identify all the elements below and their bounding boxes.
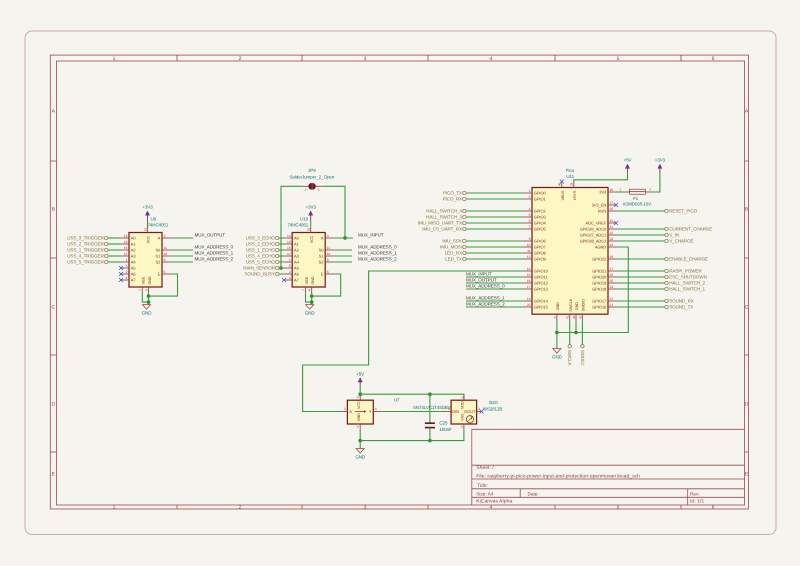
svg-text:V_CHARGE: V_CHARGE	[669, 239, 693, 244]
svg-text:MUX_ADDRESS_1: MUX_ADDRESS_1	[466, 296, 505, 301]
svg-text:30: 30	[610, 207, 614, 211]
svg-text:1: 1	[305, 188, 307, 192]
svg-text:+3V3: +3V3	[142, 205, 153, 210]
svg-text:VDD: VDD	[461, 401, 465, 409]
svg-text:GPIO28_ADC2: GPIO28_ADC2	[580, 239, 607, 244]
svg-text:AGND: AGND	[595, 245, 606, 250]
svg-text:GND: GND	[575, 302, 579, 310]
hierarchical label PICO_TX	[443, 191, 466, 196]
local label MUX_INPUT	[358, 233, 384, 238]
reference and value of U9	[148, 217, 169, 228]
svg-text:E: E	[321, 272, 324, 277]
svg-text:SN74LVC1T45DBV: SN74LVC1T45DBV	[413, 405, 451, 410]
svg-text:9: 9	[529, 237, 531, 241]
no-connect cross on U9	[119, 266, 123, 270]
svg-text:GPIO17: GPIO17	[592, 299, 607, 304]
svg-text:3: 3	[164, 234, 166, 238]
wire fuse F1 to +3V3	[652, 171, 660, 192]
wire LED_RX to U11	[466, 252, 523, 254]
wire USS_4_ECHO to U10	[279, 255, 283, 257]
svg-text:GND: GND	[305, 310, 316, 315]
capacitor C25	[425, 394, 435, 440]
junction at U7 VCC rail	[358, 392, 362, 396]
svg-text:14: 14	[287, 240, 291, 244]
wire +5V to U7 VCC	[359, 385, 361, 394]
no-connect cross on U9	[119, 278, 123, 282]
svg-text:GPIO19: GPIO19	[592, 281, 607, 286]
svg-text:35: 35	[610, 219, 614, 223]
+5V power symbol at U11	[624, 158, 632, 172]
svg-text:RUN: RUN	[598, 209, 607, 214]
wire LED_TX to U11	[466, 258, 523, 260]
svg-text:10: 10	[327, 252, 331, 256]
hierarchical label HALL_SWITCH_2	[665, 281, 706, 286]
svg-text:USS_3_ECHO: USS_3_ECHO	[246, 236, 276, 241]
wire USS_4_TRIGGER to U9	[108, 255, 120, 257]
svg-text:16: 16	[143, 228, 147, 232]
wire MUX_INPUT to U11	[466, 276, 523, 278]
svg-text:4: 4	[289, 276, 291, 280]
+3V3 power symbol at U9	[142, 205, 153, 227]
wire U7 GND to ground rail	[359, 430, 361, 441]
svg-text:LED_RX: LED_RX	[445, 251, 462, 256]
svg-text:GND: GND	[556, 302, 560, 310]
svg-text:GPIO6: GPIO6	[534, 239, 547, 244]
svg-text:SWCLK: SWCLK	[569, 298, 573, 311]
svg-text:ESC_SHUTDOWN: ESC_SHUTDOWN	[669, 275, 707, 280]
svg-text:GPIO10: GPIO10	[534, 269, 549, 274]
wire U11 to ENABLE_CHARGE	[616, 258, 665, 260]
local label MUX_OUTPUT at U11	[466, 278, 497, 283]
local label MUX_ADDRESS_2 at U10	[358, 257, 397, 262]
svg-text:GPIO16: GPIO16	[592, 305, 607, 310]
svg-text:E: E	[52, 472, 56, 478]
wire U11 to SOUND_RX	[616, 300, 665, 302]
svg-text:6: 6	[327, 270, 329, 274]
wire MUX_OUTPUT to U11	[466, 282, 523, 284]
svg-text:nSMD035-16V: nSMD035-16V	[623, 201, 652, 206]
svg-text:MUX_ADDRESS_1: MUX_ADDRESS_1	[195, 251, 234, 256]
hierarchical label USS_5_TRIGGER	[67, 260, 108, 265]
wire GPIO10 of U11 to level shifter U7	[303, 271, 523, 412]
wire RAIN_SENSOR to U10	[279, 267, 283, 269]
hierarchical label USS_3_ECHO	[246, 236, 279, 241]
svg-text:2: 2	[239, 56, 242, 62]
wire MUX_ADDRESS_0 to U11	[466, 288, 523, 290]
hierarchical label SOUND_RX	[665, 299, 694, 304]
svg-text:5: 5	[529, 213, 531, 217]
svg-text:USS_3_TRIGGER: USS_3_TRIGGER	[67, 236, 104, 241]
svg-text:11: 11	[327, 246, 331, 250]
svg-text:GPIO22: GPIO22	[592, 257, 607, 262]
svg-text:SOUND_BUSY: SOUND_BUSY	[244, 272, 275, 277]
svg-text:USS_5_ECHO: USS_5_ECHO	[246, 260, 276, 265]
svg-text:74HC4051: 74HC4051	[148, 222, 169, 227]
svg-text:2: 2	[289, 270, 291, 274]
wire U10 to MUX_ADDRESS_2	[334, 261, 352, 263]
svg-text:6: 6	[712, 505, 715, 511]
svg-text:VSYS: VSYS	[573, 190, 577, 200]
multiplexer U10 74HC4051	[283, 227, 334, 294]
no-connect cross on B2G DOUT	[480, 410, 484, 414]
svg-text:37: 37	[610, 201, 614, 205]
svg-text:19: 19	[527, 297, 531, 301]
svg-text:CURRENT_CHARGE: CURRENT_CHARGE	[669, 227, 712, 232]
reference and value of U10	[287, 217, 308, 228]
svg-text:4: 4	[126, 276, 128, 280]
svg-text:1: 1	[113, 56, 116, 62]
wire USS_3_TRIGGER to U9	[108, 237, 120, 239]
svg-text:MUX_ADDRESS_2: MUX_ADDRESS_2	[466, 302, 505, 307]
wire VSYS to +5V	[574, 171, 628, 182]
svg-text:GPIO2: GPIO2	[534, 209, 547, 214]
svg-text:Pico: Pico	[566, 168, 575, 173]
svg-text:3: 3	[460, 426, 464, 428]
local label MUX_ADDRESS_2 at U11	[466, 302, 505, 307]
svg-text:GPIO14: GPIO14	[534, 299, 549, 304]
hierarchical label USS_1_TRIGGER	[67, 248, 108, 253]
svg-text:21: 21	[610, 303, 614, 307]
svg-text:HALL_SWITCH_4: HALL_SWITCH_4	[426, 209, 462, 214]
wire USS_2_ECHO to U10	[279, 243, 283, 245]
hierarchical label LED_RX	[445, 251, 466, 256]
svg-text:7: 7	[138, 289, 142, 291]
svg-text:HALL_SWITCH_1: HALL_SWITCH_1	[669, 287, 705, 292]
svg-text:USS_1_TRIGGER: USS_1_TRIGGER	[67, 248, 104, 253]
svg-text:WS2812B: WS2812B	[483, 406, 503, 411]
junction at U10 VEE join	[310, 300, 314, 304]
svg-text:IMU_SCK: IMU_SCK	[442, 239, 463, 244]
wire U10 to MUX_ADDRESS_1	[334, 255, 352, 257]
no-connect cross on VBUS pin	[560, 180, 564, 184]
svg-text:GPIO11: GPIO11	[534, 275, 549, 280]
junction at U7 ground rail	[358, 439, 362, 443]
svg-text:4: 4	[375, 407, 377, 411]
reference and value of B2G	[483, 400, 503, 411]
svg-text:File: raspberry-pi-pico-power-: File: raspberry-pi-pico-power-input-and-…	[476, 474, 640, 480]
svg-text:SOUND_RX: SOUND_RX	[669, 299, 694, 304]
svg-text:15: 15	[287, 246, 291, 250]
svg-text:20: 20	[527, 303, 531, 307]
ground symbol below U7	[355, 449, 366, 460]
multiplexer U9 74HC4051	[120, 227, 171, 294]
svg-text:2: 2	[529, 195, 531, 199]
svg-text:GPIO26_ADC0: GPIO26_ADC0	[580, 227, 607, 232]
svg-text:DOUT: DOUT	[464, 409, 476, 414]
svg-text:Rev:: Rev:	[690, 491, 700, 496]
svg-text:DIN: DIN	[452, 409, 459, 414]
svg-text:8: 8	[308, 289, 312, 291]
svg-text:VEE: VEE	[305, 276, 309, 284]
svg-text:9: 9	[164, 258, 166, 262]
reference and value of JP9	[290, 168, 335, 179]
wire USS_1_TRIGGER to U9	[108, 249, 120, 251]
svg-text:D: D	[51, 402, 55, 408]
no-connect cross on 3V3_EN	[614, 203, 618, 207]
svg-text:17: 17	[527, 285, 531, 289]
svg-text:3: 3	[356, 426, 360, 428]
svg-text:Date:: Date:	[528, 491, 539, 496]
wire MUX_ADDRESS_1 to U11	[466, 300, 523, 302]
svg-text:GPIO1: GPIO1	[534, 197, 547, 202]
svg-text:GPIO7: GPIO7	[534, 245, 547, 250]
svg-text:VBUS: VBUS	[561, 190, 565, 200]
svg-text:+3V3: +3V3	[655, 158, 666, 163]
svg-text:3V3: 3V3	[599, 190, 607, 195]
svg-text:12: 12	[124, 252, 128, 256]
svg-text:29: 29	[610, 255, 614, 259]
svg-text:MUX_ADDRESS_0: MUX_ADDRESS_0	[195, 245, 234, 250]
svg-text:16: 16	[527, 279, 531, 283]
svg-text:5: 5	[126, 264, 128, 268]
svg-text:14: 14	[527, 267, 531, 271]
svg-text:C25: C25	[439, 420, 448, 425]
svg-text:U10: U10	[300, 217, 309, 222]
svg-text:Y: Y	[369, 409, 372, 414]
+5V rail wire to C25 and B2G	[360, 394, 464, 400]
hierarchical label SOUND_BUSY	[244, 272, 279, 277]
ground symbol below U10	[305, 305, 316, 316]
level shifter U7 SN74LVC1T45DBV	[338, 394, 382, 430]
junction JP9 on MUX_INPUT wire	[343, 236, 347, 240]
wire USS_5_ECHO to U10	[279, 261, 283, 263]
wire U11 to SOUND_TX	[616, 306, 665, 308]
wire enable pin E of U10 to ground	[312, 274, 341, 296]
hierarchical label HALL_SWITCH_1	[665, 287, 706, 292]
svg-text:U7: U7	[394, 398, 400, 403]
svg-text:V_IN: V_IN	[669, 233, 679, 238]
hierarchical label USS_3_TRIGGER	[67, 236, 108, 241]
svg-text:74HC4051: 74HC4051	[287, 222, 308, 227]
svg-text:42: 42	[572, 315, 576, 319]
junction at U10 GND pin	[310, 294, 314, 298]
svg-text:GPIO15: GPIO15	[534, 305, 549, 310]
local label MUX_ADDRESS_0 at U10	[358, 245, 397, 250]
svg-text:11: 11	[164, 246, 168, 250]
wire GND pin of U10 down	[311, 293, 313, 305]
svg-text:IMU_CS_UART_RX: IMU_CS_UART_RX	[422, 227, 462, 232]
svg-text:6: 6	[712, 56, 715, 62]
hierarchical label USS_2_TRIGGER	[67, 242, 108, 247]
hierarchical label IMU_CS_UART_RX	[422, 227, 466, 232]
svg-text:GND: GND	[357, 413, 361, 421]
wire AGND of U11 to ground rail	[557, 247, 628, 333]
svg-text:3V3_EN: 3V3_EN	[592, 203, 607, 208]
svg-text:12: 12	[527, 255, 531, 259]
wire MUX_ADDRESS_2 to U11	[466, 306, 523, 308]
svg-text:39: 39	[570, 182, 574, 186]
wire USS_3_ECHO to U10	[279, 237, 283, 239]
hierarchical label ESC_SHUTDOWN	[665, 275, 707, 280]
svg-text:B: B	[52, 207, 56, 213]
hierarchical label USS_5_ECHO	[246, 260, 279, 265]
svg-text:6: 6	[529, 219, 531, 223]
svg-text:GND: GND	[355, 454, 366, 459]
svg-text:15: 15	[527, 273, 531, 277]
svg-text:+3V3: +3V3	[306, 205, 317, 210]
svg-text:4: 4	[529, 207, 531, 211]
microcontroller module U11 Raspberry Pi Pico	[523, 182, 616, 321]
wire U11 to HALL_SWITCH_2	[616, 282, 665, 284]
svg-text:USS_1_ECHO: USS_1_ECHO	[246, 248, 276, 253]
svg-text:PICO_TX: PICO_TX	[443, 191, 462, 196]
svg-text:+5V: +5V	[624, 158, 632, 163]
local label MUX_ADDRESS_2 at U9	[195, 257, 234, 262]
svg-text:4: 4	[448, 407, 450, 411]
svg-text:GPIO27_ADC1: GPIO27_ADC1	[580, 233, 607, 238]
svg-text:RESET_PICO: RESET_PICO	[669, 209, 697, 214]
hierarchical label IMU_MISO_UART_TX	[418, 221, 466, 226]
svg-text:ADC_VREF: ADC_VREF	[585, 221, 606, 226]
svg-text:+5V: +5V	[356, 371, 364, 376]
svg-text:SWCLK: SWCLK	[567, 350, 572, 367]
svg-text:GPIO21: GPIO21	[592, 269, 607, 274]
hierarchical label V_CHARGE	[665, 239, 694, 244]
wire U11 to HALL_SWITCH_1	[616, 288, 665, 290]
svg-text:LED_TX: LED_TX	[445, 257, 462, 262]
svg-text:2: 2	[478, 407, 480, 411]
svg-text:3: 3	[327, 234, 329, 238]
svg-text:GPIO0: GPIO0	[534, 191, 547, 196]
svg-text:27: 27	[610, 267, 614, 271]
hierarchical label USS_4_ECHO	[246, 254, 279, 259]
hierarchical label V_IN	[665, 233, 679, 238]
svg-text:7: 7	[529, 225, 531, 229]
wire IMU_MISO_UART_TX to U11	[466, 222, 523, 224]
wire IMU_CS_UART_RX to U11	[466, 228, 523, 230]
wire USS_5_TRIGGER to U9	[108, 261, 120, 263]
svg-text:VSS: VSS	[461, 413, 465, 421]
svg-text:32: 32	[610, 231, 614, 235]
wire U11 to ESC_SHUTDOWN	[616, 276, 665, 278]
hierarchical label RASPI_POWER	[665, 269, 703, 274]
svg-text:1: 1	[126, 258, 128, 262]
wire U10 output A to MUX_INPUT	[334, 237, 353, 239]
ground rail wire under U7 and B2G	[360, 430, 464, 441]
local label MUX_INPUT at U11	[466, 272, 492, 277]
wire SWCLK pin down	[569, 320, 571, 344]
junction at U11 ground rail	[555, 331, 559, 335]
RGB LED B2G WS2812B	[443, 394, 482, 430]
wire GND pin of U9 down	[148, 293, 150, 305]
wire 3V3 pin to fuse F1	[616, 191, 624, 193]
ground symbol below U11	[552, 349, 563, 360]
svg-text:U9: U9	[151, 217, 157, 222]
svg-text:SolderJumper_2_Open: SolderJumper_2_Open	[290, 174, 335, 179]
svg-text:22: 22	[610, 297, 614, 301]
svg-text:Title:: Title:	[477, 483, 489, 489]
wire U11 to RASPI_POWER	[616, 270, 665, 272]
wire U11 to V_CHARGE	[616, 240, 665, 242]
wire U9 output A to MUX_OUTPUT	[171, 237, 193, 239]
junction ground rail at C25	[428, 439, 432, 443]
hierarchical label RAIN_SENSOR	[243, 266, 279, 271]
svg-text:C: C	[745, 305, 749, 311]
svg-text:6: 6	[164, 270, 166, 274]
junction at U9 GND pin	[147, 294, 151, 298]
svg-text:GPIO9: GPIO9	[534, 257, 547, 262]
local label MUX_ADDRESS_1 at U9	[195, 251, 234, 256]
svg-text:1: 1	[113, 505, 116, 511]
svg-text:GPIO5: GPIO5	[534, 227, 547, 232]
+3V3 power symbol at F1	[655, 158, 666, 172]
svg-text:Sheet: /: Sheet: /	[476, 465, 494, 471]
hierarchical label USS_4_TRIGGER	[67, 254, 108, 259]
svg-text:U11: U11	[566, 174, 574, 179]
svg-text:8: 8	[553, 316, 557, 318]
hierarchical label IMU_MOSI	[440, 245, 466, 250]
svg-text:GPIO20: GPIO20	[592, 275, 607, 280]
svg-text:1: 1	[529, 189, 531, 193]
svg-text:D: D	[745, 402, 749, 408]
svg-text:USS_2_ECHO: USS_2_ECHO	[246, 242, 276, 247]
svg-text:16: 16	[307, 228, 311, 232]
svg-text:15: 15	[124, 246, 128, 250]
svg-text:C: C	[51, 305, 55, 311]
svg-text:1: 1	[460, 396, 464, 398]
svg-text:KiCanvas Alpha: KiCanvas Alpha	[476, 499, 512, 505]
wire VEE of U10 to ground	[306, 293, 312, 302]
svg-text:MUX_INPUT: MUX_INPUT	[358, 233, 384, 238]
+3V3 power symbol at U10	[306, 205, 317, 227]
wire U11 GND pin down	[556, 320, 558, 348]
svg-text:100nF: 100nF	[439, 427, 452, 432]
svg-text:14: 14	[124, 240, 128, 244]
no-connect cross on ADC_VREF	[614, 221, 618, 225]
wire VEE of U9 to ground	[142, 293, 148, 302]
svg-text:MUX_ADDRESS_0: MUX_ADDRESS_0	[358, 245, 397, 250]
svg-text:USS_4_ECHO: USS_4_ECHO	[246, 254, 276, 259]
svg-text:12: 12	[287, 252, 291, 256]
svg-text:1: 1	[619, 187, 621, 191]
local label MUX_ADDRESS_0 at U11	[466, 284, 505, 289]
svg-text:GPIO12: GPIO12	[534, 281, 549, 286]
svg-text:7: 7	[301, 289, 305, 291]
wire IMU_MOSI to U11	[466, 246, 523, 248]
svg-text:5: 5	[356, 396, 360, 398]
svg-text:IMU_MOSI: IMU_MOSI	[440, 245, 462, 250]
svg-text:GPIO4: GPIO4	[534, 221, 547, 226]
wire U10 to MUX_ADDRESS_0	[334, 249, 352, 251]
svg-text:GPIO18: GPIO18	[592, 287, 607, 292]
svg-text:3: 3	[364, 56, 367, 62]
reference and value of F1	[623, 196, 652, 206]
svg-text:4: 4	[490, 56, 493, 62]
wire USS_1_ECHO to U10	[279, 249, 283, 251]
wire enable pin E of U9 to ground	[149, 274, 178, 296]
svg-text:USS_5_TRIGGER: USS_5_TRIGGER	[67, 260, 104, 265]
wire U11 to V_IN	[616, 234, 665, 236]
svg-text:10: 10	[527, 243, 531, 247]
junction debug GND on rail	[574, 331, 578, 335]
svg-text:5: 5	[617, 505, 620, 511]
hierarchical label HALL_SWITCH_3	[426, 215, 466, 220]
svg-text:GPIO8: GPIO8	[534, 251, 547, 256]
wire PICO_TX to U11	[466, 192, 523, 194]
svg-text:E: E	[158, 272, 161, 277]
svg-text:GND: GND	[148, 276, 152, 284]
wire U7 Y output to B2G DIN	[382, 411, 442, 413]
svg-text:GPIO3: GPIO3	[534, 215, 547, 220]
hierarchical label CURRENT_CHARGE	[665, 227, 712, 232]
svg-text:24: 24	[610, 285, 614, 289]
svg-text:JP9: JP9	[308, 168, 316, 173]
svg-text:2: 2	[239, 505, 242, 511]
ground symbol below U9	[142, 305, 153, 316]
wire U11 debug GND pin down	[575, 320, 577, 332]
svg-text:MUX_ADDRESS_0: MUX_ADDRESS_0	[466, 284, 505, 289]
wire U9 to MUX_ADDRESS_0	[171, 249, 193, 251]
